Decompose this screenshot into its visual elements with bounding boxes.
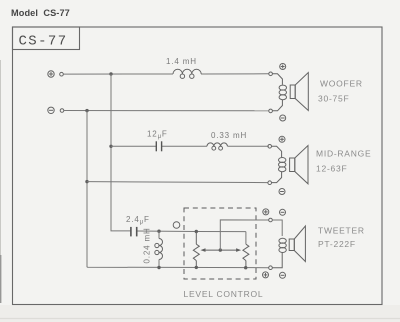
wire: midrange return <box>87 182 268 183</box>
polarity + (woofer) <box>280 64 286 70</box>
svg-text:CS-77: CS-77 <box>19 34 68 50</box>
polarity + (tweeter bottom left) <box>263 272 269 278</box>
input terminal - <box>48 107 54 113</box>
connector circle before level control <box>173 222 180 229</box>
wiper arrow (double headed) <box>201 248 242 252</box>
inductor 0.24mH (tweeter shunt coil) <box>155 231 163 267</box>
wire: wiper output to tweeter <box>220 220 268 250</box>
node: feed / line A junction <box>109 72 112 75</box>
svg-text:0.33 mH: 0.33 mH <box>211 131 247 140</box>
capacitor 2.4uF (tweeter) <box>131 227 137 237</box>
svg-text:0.24 mH: 0.24 mH <box>143 227 152 263</box>
svg-text:PT-222F: PT-222F <box>318 239 356 249</box>
svg-text:12-63F: 12-63F <box>316 164 347 174</box>
node: left resistor top junction <box>195 230 198 233</box>
svg-text:2.4μF: 2.4μF <box>126 215 150 226</box>
svg-text:WOOFER: WOOFER <box>320 79 363 89</box>
node: negative / line B junction <box>85 109 88 112</box>
polarity - (woofer) <box>280 115 286 121</box>
wire: tweeter feed drop <box>272 220 282 236</box>
resistor VR1 (left, level control) <box>193 232 199 268</box>
connector circle tweeter feed <box>269 218 273 222</box>
wire: negative rail <box>64 110 269 112</box>
svg-text:LEVEL CONTROL: LEVEL CONTROL <box>184 289 264 299</box>
wire: line A (feed drop to mid & tweeter) <box>111 74 131 231</box>
node: shunt coil / bottom rail junction <box>157 266 160 269</box>
svg-text:MID-RANGE: MID-RANGE <box>316 149 371 159</box>
node: wiper junction <box>219 248 222 251</box>
input - connector circle <box>60 109 64 113</box>
wire: midrange feed <box>111 145 269 147</box>
svg-text:TWEETER: TWEETER <box>318 226 365 236</box>
wire: tweeter feed <box>137 231 246 244</box>
polarity - (tweeter top right) <box>280 209 286 215</box>
svg-text:30-75F: 30-75F <box>318 94 349 104</box>
input + connector circle <box>60 72 64 76</box>
input terminal + <box>48 71 54 77</box>
node: line B / midrange return junction <box>85 180 88 183</box>
svg-text:12μF: 12μF <box>147 130 168 141</box>
tweeter speaker symbol <box>272 226 305 268</box>
node: left resistor bottom junction <box>195 266 198 269</box>
midrange speaker symbol <box>272 146 309 184</box>
woofer feed connector circle <box>269 72 273 76</box>
polarity + (midrange) <box>279 136 285 142</box>
level control dashed enclosure <box>184 208 256 279</box>
resistor VR2 (right, level control) <box>243 244 249 267</box>
title block CS-77 <box>13 27 80 50</box>
polarity - (midrange) <box>279 189 285 195</box>
woofer speaker symbol <box>272 73 308 111</box>
inductor 0.33mH (midrange series coil) <box>207 143 227 150</box>
wire: line B (negative drop to returns) <box>87 111 269 268</box>
polarity + (tweeter top left) <box>263 209 269 215</box>
node: right resistor bottom junction <box>244 266 247 269</box>
node: line A / midrange feed junction <box>109 145 112 148</box>
svg-text:Model CS-77: Model CS-77 <box>11 8 70 18</box>
midrange return connector circle <box>268 181 272 185</box>
node: tweeter cap / shunt coil junction <box>157 230 160 233</box>
connector circle tweeter return <box>269 266 273 270</box>
polarity - (tweeter bottom right) <box>280 272 286 278</box>
svg-text:1.4 mH: 1.4 mH <box>166 57 197 66</box>
woofer return connector circle <box>269 109 273 113</box>
midrange feed connector circle <box>268 145 272 149</box>
capacitor 12uF (midrange) <box>156 141 161 151</box>
wire: positive feed rail (top) <box>63 73 268 75</box>
inductor 1.4mH (woofer series coil) <box>173 69 201 78</box>
